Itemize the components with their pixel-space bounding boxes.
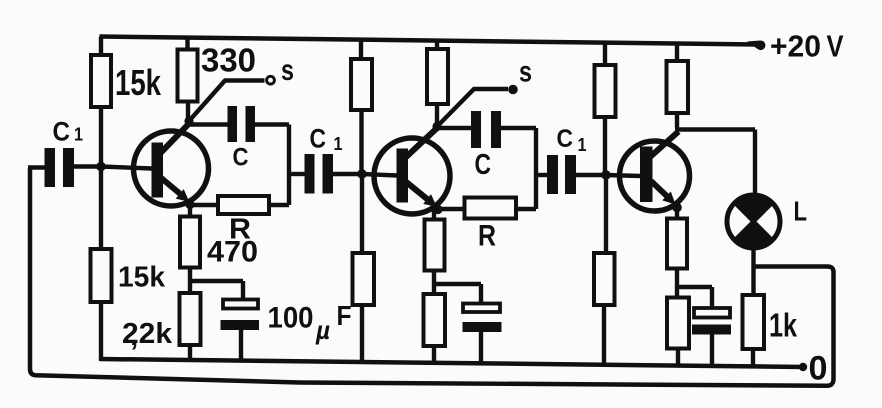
wire collector resistor to junction stage2 xyxy=(435,103,439,127)
resistor R stage1 xyxy=(218,196,269,214)
resistor collector stage2 xyxy=(427,49,448,104)
wire 100uF to 0 rail stage3 xyxy=(710,333,714,367)
svg-text:s: s xyxy=(281,54,294,87)
wire 15k to base node stage1 xyxy=(99,106,103,168)
wire 470 to divider node stage3 xyxy=(675,267,679,299)
node emitter junction stage1 xyxy=(185,200,194,209)
wire emitter to 470 stage2 xyxy=(432,209,436,221)
wire 100uF to 0 rail stage2 xyxy=(479,331,483,364)
label C stage1 xyxy=(233,144,249,172)
node 0V rail end dot xyxy=(799,363,807,371)
wire 100uF to 0 rail xyxy=(239,329,243,361)
label C1 stage2 xyxy=(310,124,343,155)
wire C1 to base node stage2 xyxy=(333,172,362,176)
node emitter junction stage2 xyxy=(433,205,442,214)
wire 330 to collector junction stage1 xyxy=(186,100,190,121)
label 15k lower xyxy=(118,262,166,294)
wire base node to lower bias stage3 xyxy=(604,175,608,254)
capacitor C1 stage1 xyxy=(45,148,75,187)
node emitter junction stage3 xyxy=(672,203,682,213)
wire stage1 rail to 15k xyxy=(99,37,103,58)
wire rail to bias resistor stage2 xyxy=(359,40,363,62)
label C stage2 xyxy=(475,149,492,181)
transistor Q3 xyxy=(606,132,690,212)
capacitor 100uF stage3 xyxy=(692,308,731,335)
svg-text:C: C xyxy=(475,149,492,181)
capacitor 100uF stage1 xyxy=(221,300,260,331)
svg-text:,: , xyxy=(130,319,138,352)
switch terminal s stage2 xyxy=(508,85,518,95)
resistor bias lower stage2 xyxy=(353,253,375,305)
label 2.2k xyxy=(122,318,173,352)
wire lamp to 1k xyxy=(751,247,755,296)
label C1 stage1 xyxy=(53,117,84,147)
wire +20V supply rail xyxy=(100,37,759,45)
wire 2.2k to 0 rail xyxy=(188,344,192,362)
node emitter divider stage2 xyxy=(434,284,481,305)
node +20V rail end dot xyxy=(747,40,765,50)
wire C to output node stage1 xyxy=(255,125,289,206)
resistor 15k lower stage1 xyxy=(91,249,112,302)
wire R to emitter junction stage2 xyxy=(438,207,464,211)
wire emitter to 470 xyxy=(188,204,192,218)
wire to switch point s stage2 xyxy=(437,89,508,127)
svg-text:L: L xyxy=(794,196,808,227)
wire rail to collector resistor stage3 xyxy=(675,43,679,64)
wire C1 to base node stage1 xyxy=(74,164,101,168)
node collector junction stage1 xyxy=(184,116,193,125)
svg-text:R: R xyxy=(478,220,496,253)
resistor collector stage3 xyxy=(667,61,689,113)
resistor 1k xyxy=(743,295,765,349)
wire collector to C stage1 xyxy=(189,122,228,126)
label R stage2 xyxy=(478,220,496,253)
transistor Q1 xyxy=(101,123,209,206)
wire rail to collector resistor stage2 xyxy=(435,40,439,50)
svg-text:1: 1 xyxy=(578,135,587,155)
label 470 xyxy=(207,236,258,269)
svg-text:15k: 15k xyxy=(115,62,162,103)
capacitor C stage1 xyxy=(228,106,256,142)
resistor 2.2k stage2 xyxy=(424,294,446,346)
transistor Q2 xyxy=(362,129,450,215)
label 15k xyxy=(115,62,162,103)
label 0 xyxy=(809,350,828,388)
resistor R stage2 xyxy=(465,198,517,219)
wire lower bias to 0 rail stage3 xyxy=(602,304,606,366)
wire rail to 330 stage1 xyxy=(185,38,189,52)
wire 470 to divider node stage2 xyxy=(432,269,436,295)
node collector junction stage2 xyxy=(432,122,441,131)
label L xyxy=(794,196,808,227)
wire bias to base node stage3 xyxy=(603,116,607,176)
resistor 470 stage3 xyxy=(667,219,687,269)
wire emitter to 470 stage3 xyxy=(675,207,679,220)
label s stage1 xyxy=(281,54,294,87)
wire 2.2k to 0 rail stage2 xyxy=(432,345,436,364)
resistor 2.2k stage3 xyxy=(667,298,689,349)
node base stage1 xyxy=(96,162,106,172)
resistor 2.2k stage1 xyxy=(180,293,201,345)
node base stage2 xyxy=(357,169,367,179)
node base stage3 xyxy=(601,170,611,180)
svg-text:330: 330 xyxy=(201,42,256,79)
wire bias to base node stage2 xyxy=(359,109,363,175)
wire input lead to C1 stage1 xyxy=(28,165,45,169)
lamp L xyxy=(727,195,780,248)
wire collector to C stage2 xyxy=(437,126,471,130)
svg-text:µ: µ xyxy=(315,315,330,345)
wire collector resistor to lamp branch stage3 xyxy=(675,112,755,197)
svg-text:C: C xyxy=(557,125,574,153)
wire stage2 output to C1 stage3 xyxy=(536,173,547,177)
capacitor C1 stage2 xyxy=(305,154,334,194)
wire base node to lower 15k stage1 xyxy=(99,167,103,251)
resistor 330 stage1 xyxy=(178,50,198,102)
svg-text:470: 470 xyxy=(207,236,258,269)
svg-text:+20: +20 xyxy=(770,29,821,64)
label 100uF xyxy=(268,300,352,345)
resistor bias upper stage3 xyxy=(595,65,616,117)
svg-text:C: C xyxy=(310,124,327,154)
label C1 stage3 xyxy=(557,125,587,155)
svg-text:C: C xyxy=(53,117,71,147)
wire C1 to base node stage3 xyxy=(576,173,606,177)
svg-text:1k: 1k xyxy=(769,307,797,344)
svg-text:C: C xyxy=(233,144,249,172)
label R stage1 xyxy=(229,214,251,246)
wire 470 to 2.2k node xyxy=(188,266,192,294)
svg-text:1: 1 xyxy=(74,125,83,145)
label s stage2 xyxy=(519,56,532,89)
capacitor C1 stage3 xyxy=(547,155,576,194)
wire feedback loop from lamp node around bottom to input xyxy=(30,168,834,386)
svg-text:V: V xyxy=(827,29,844,64)
label 330 xyxy=(201,42,256,79)
resistor 15k upper stage1 xyxy=(91,55,111,107)
wire 2.2k to 0 rail stage3 xyxy=(676,348,680,367)
node emitter divider stage1 xyxy=(190,281,243,301)
label 1k xyxy=(769,307,797,344)
wire rail to bias resistor stage3 xyxy=(603,42,607,67)
svg-text:s: s xyxy=(519,56,532,89)
wire base node to lower bias stage2 xyxy=(360,174,364,254)
svg-text:15k: 15k xyxy=(118,262,166,294)
capacitor 100uF stage2 xyxy=(463,304,502,333)
svg-text:F: F xyxy=(337,300,352,331)
svg-text:100: 100 xyxy=(268,302,314,335)
wire C to output node stage2 xyxy=(501,128,536,209)
wire 0V rail xyxy=(100,359,804,367)
label +20V xyxy=(770,29,844,64)
wire R to emitter junction stage1 xyxy=(190,203,218,207)
wire lower bias to 0 rail stage2 xyxy=(360,304,364,363)
node emitter divider stage3 xyxy=(677,287,712,309)
resistor bias upper stage2 xyxy=(351,59,372,110)
wire stage1 output to C1 stage2 xyxy=(289,172,305,176)
capacitor C stage2 xyxy=(471,111,501,148)
svg-text:1: 1 xyxy=(334,134,343,154)
resistor 470 stage1 xyxy=(180,217,200,268)
wire 1k to 0 rail xyxy=(751,348,755,368)
resistor 470 stage2 xyxy=(425,220,445,271)
resistor bias lower stage3 xyxy=(594,253,615,305)
switch terminal s stage1 xyxy=(267,76,275,84)
wire lower 15k to 0 rail xyxy=(99,301,103,361)
wire to switch point s stage1 xyxy=(189,81,265,122)
svg-text:0: 0 xyxy=(809,350,828,388)
